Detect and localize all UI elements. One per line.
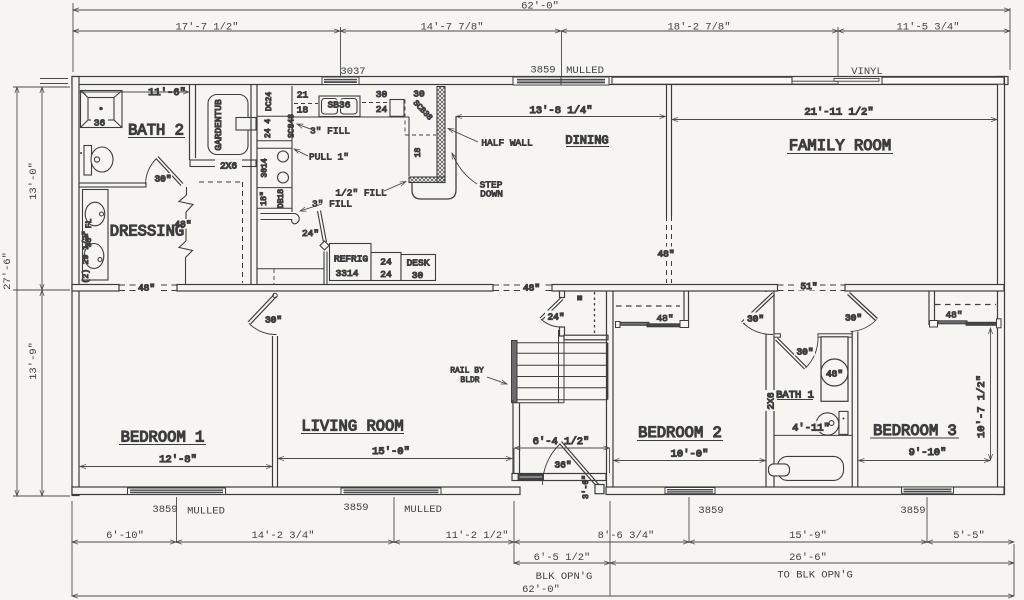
- opening 48" dashed hall-stairs: [493, 285, 552, 291]
- room label BATH 1: [776, 390, 814, 402]
- svg-text:BEDROOM 3: BEDROOM 3: [873, 422, 957, 440]
- toilet bath 2: [80, 146, 113, 176]
- door 36" front entry: [542, 442, 604, 500]
- svg-text:48": 48": [826, 369, 843, 380]
- wall: corridor segment B: [177, 285, 493, 292]
- door 30" bedroom 3: [843, 293, 878, 332]
- svg-text:5'-5": 5'-5": [953, 530, 985, 542]
- garden tub: [208, 95, 256, 155]
- wall bedroom2 left: [607, 292, 614, 488]
- cooktop 3014 circles: [261, 151, 289, 183]
- svg-text:24: 24: [380, 257, 392, 268]
- dimension 11'-5 3/4" top: [838, 22, 1010, 34]
- wall: bottom exterior left of entry: [72, 487, 520, 495]
- toilet bath1: [816, 411, 848, 435]
- svg-text:24": 24": [547, 312, 564, 323]
- sink base SB36 with double sink: [319, 96, 360, 117]
- leader 1/2" fill: [335, 182, 406, 199]
- svg-text:24: 24: [376, 104, 388, 115]
- leader 3" fill upper: [297, 124, 350, 137]
- svg-text:BLK OPN'G: BLK OPN'G: [536, 571, 593, 583]
- svg-text:3859: 3859: [900, 505, 925, 517]
- window 3859 bedroom2: [665, 488, 715, 494]
- bedroom3 closet left wall: [929, 292, 935, 326]
- svg-text:SB36: SB36: [328, 100, 351, 111]
- svg-text:DOWN: DOWN: [480, 189, 503, 200]
- upper cab dashed 30/24: [362, 89, 400, 115]
- svg-text:4'-11": 4'-11": [792, 423, 830, 435]
- dimension 4'-11" bath1: [792, 421, 830, 435]
- svg-text:9'-10": 9'-10": [909, 447, 947, 459]
- room label BEDROOM 3: [870, 422, 959, 440]
- bedroom3 closet shelf dashed: [935, 304, 996, 306]
- svg-text:12'-8": 12'-8": [159, 454, 197, 466]
- door 30" bedroom 2: [742, 293, 775, 335]
- wall bath1 / bedroom3: [852, 332, 858, 488]
- svg-text:3'-0": 3'-0": [582, 475, 591, 499]
- door 30" bedroom 1: [248, 293, 286, 334]
- dimension 6'-10" bottom: [72, 530, 176, 542]
- leader half wall: [448, 129, 533, 149]
- desk DESK 30: [401, 255, 436, 282]
- svg-text:(2) 29 1/2": (2) 29 1/2": [82, 231, 91, 284]
- dimension 26'-6" TO BLK OPN'G: [610, 552, 1014, 582]
- dimension 10'-7 1/2" bedroom3 vertical: [976, 328, 991, 460]
- svg-text:10'-0": 10'-0": [671, 449, 709, 461]
- dimension 62'-0" bottom overall: [72, 584, 1014, 596]
- svg-text:BEDROOM 1: BEDROOM 1: [121, 429, 205, 447]
- svg-text:18'-2 7/8": 18'-2 7/8": [667, 22, 730, 34]
- bath1 floor line: [774, 434, 852, 436]
- wall bath2 right / tub alcove: [190, 85, 196, 160]
- wall: top exterior: [72, 77, 1008, 85]
- counter edge right run: [408, 117, 410, 176]
- leader rail by bldr: [450, 367, 507, 386]
- svg-text:11'-2 1/2": 11'-2 1/2": [445, 530, 508, 542]
- cabinet 24/24: [371, 253, 401, 281]
- window 3859 bedroom3: [902, 487, 954, 493]
- svg-text:51": 51": [800, 281, 817, 292]
- svg-text:BATH 2: BATH 2: [128, 122, 184, 140]
- dimension 10'-0" bedroom2: [614, 449, 766, 461]
- refrigerator REFRIG 3314: [330, 244, 372, 281]
- door 30" bath 1: [776, 338, 819, 370]
- sliding door vinyl panel 2: [834, 78, 879, 81]
- wall: left exterior: [72, 77, 79, 496]
- svg-text:3859: 3859: [343, 502, 368, 514]
- shower 36" bath 2: [81, 91, 123, 129]
- leader pull 1": [294, 149, 349, 163]
- counter front edge top run: [292, 116, 409, 118]
- svg-text:48": 48": [945, 310, 962, 321]
- vanity dressing double sinks: [82, 190, 108, 284]
- svg-text:15'-9": 15'-9": [789, 530, 827, 542]
- dimension 15'-9" bottom: [689, 530, 927, 542]
- svg-text:SCB38: SCB38: [411, 99, 434, 123]
- svg-text:30: 30: [412, 270, 424, 281]
- svg-text:RAIL BY: RAIL BY: [450, 367, 484, 376]
- window 3859 mulled living room: [341, 488, 441, 495]
- svg-text:2X6: 2X6: [766, 392, 777, 409]
- room label BATH 2: [128, 122, 185, 140]
- bedroom2 closet shelf dashed: [616, 305, 680, 307]
- svg-text:30: 30: [413, 89, 425, 100]
- leader 3" fill lower: [300, 199, 352, 212]
- wall: corridor segment D: [845, 285, 1004, 292]
- wall bath2 / dressing: [79, 183, 146, 187]
- svg-text:MULLED: MULLED: [566, 65, 604, 77]
- svg-text:10'-7 1/2": 10'-7 1/2": [976, 375, 988, 438]
- svg-text:LIVING ROOM: LIVING ROOM: [301, 418, 403, 436]
- corner cabinet: [390, 89, 436, 136]
- kitchen cabinets left run front edge: [291, 86, 293, 212]
- svg-text:REFRIG: REFRIG: [334, 254, 369, 265]
- svg-text:BEDROOM 2: BEDROOM 2: [638, 424, 722, 442]
- svg-text:30": 30": [796, 347, 813, 358]
- svg-text:17'-7 1/2": 17'-7 1/2": [175, 22, 238, 34]
- label 2X6 bath1 wall: [765, 390, 777, 411]
- dimension 18'-2 7/8" top: [561, 22, 838, 34]
- svg-text:1/2" FILL: 1/2" FILL: [335, 188, 387, 199]
- entry sidelight window: [518, 474, 544, 480]
- dimension 11'-6" bath2: [80, 91, 189, 93]
- label 48" opening left: [136, 283, 157, 294]
- svg-text:30": 30": [265, 315, 282, 326]
- svg-text:8'-6 3/4": 8'-6 3/4": [598, 530, 655, 542]
- wall bedroom2 / bath1: [766, 292, 774, 488]
- wall 2X6 tub alcove bottom: [190, 160, 256, 172]
- wall dining / family room: [655, 85, 677, 283]
- dimension 9'-10" bedroom3: [859, 447, 991, 461]
- svg-text:HALF WALL: HALF WALL: [481, 138, 533, 149]
- svg-text:6'-4 1/2": 6'-4 1/2": [533, 436, 590, 448]
- upper cab dashed 21/18: [294, 90, 318, 116]
- svg-text:3314: 3314: [336, 268, 359, 279]
- dimension 6'-4 1/2" entry: [514, 436, 610, 473]
- svg-text:18": 18": [260, 191, 269, 205]
- svg-text:30": 30": [747, 314, 764, 325]
- svg-text:30": 30": [845, 313, 862, 324]
- window family room left: [612, 77, 792, 84]
- svg-text:DESK: DESK: [407, 258, 430, 269]
- svg-text:14'-2 3/4": 14'-2 3/4": [251, 530, 314, 542]
- svg-text:6'-10": 6'-10": [106, 530, 144, 542]
- svg-text:3" FILL: 3" FILL: [310, 126, 350, 137]
- counter peninsula hook: [261, 214, 300, 224]
- window 3859 mulled bedroom1: [128, 488, 226, 495]
- svg-text:11'-5 3/4": 11'-5 3/4": [896, 22, 959, 34]
- stair rail post: [512, 341, 518, 403]
- svg-text:21'-11 1/2": 21'-11 1/2": [804, 107, 873, 119]
- wall: corridor segment A: [72, 285, 119, 292]
- svg-text:3" FILL: 3" FILL: [312, 199, 352, 210]
- svg-text:DRESSING: DRESSING: [110, 223, 184, 241]
- dimension 12'-8" bedroom1: [80, 454, 272, 467]
- svg-text:GARDENTUB: GARDENTUB: [213, 99, 224, 151]
- svg-text:TO BLK OPN'G: TO BLK OPN'G: [777, 570, 853, 582]
- svg-text:21: 21: [297, 90, 309, 101]
- opening 48" dressing post: [174, 212, 192, 241]
- dimension 5'-5" bottom: [927, 530, 1014, 542]
- svg-text:36: 36: [94, 118, 106, 129]
- window 3037 kitchen: [322, 77, 359, 85]
- svg-text:24": 24": [302, 228, 319, 239]
- dimension 62'-0" top overall: [73, 1, 1010, 13]
- svg-text:24: 24: [380, 269, 392, 280]
- svg-text:26'-6": 26'-6": [789, 552, 827, 564]
- dimension 15'-0" living room: [278, 446, 512, 459]
- svg-text:13'-8 1/4": 13'-8 1/4": [529, 105, 592, 117]
- dimension 11'-2 1/2" bottom: [394, 530, 514, 542]
- dimension 17'-7 1/2" top: [73, 22, 340, 34]
- room label FAMILY ROOM: [787, 137, 893, 155]
- dimension 21'-11 1/2" family room: [672, 107, 997, 120]
- door 24" stair hall: [540, 291, 567, 336]
- opening 51" dashed bedrooms vestibule: [778, 285, 846, 291]
- tub bath1: [769, 456, 844, 480]
- svg-text:30": 30": [154, 174, 171, 185]
- dotted line stair hall: [594, 292, 596, 335]
- dimension 27'-6" left overall: [2, 87, 17, 496]
- wall living room / entry: [513, 400, 520, 474]
- bedroom3 closet sliding doors: [930, 309, 1002, 328]
- svg-text:48": 48": [657, 249, 674, 260]
- svg-text:48": 48": [656, 313, 673, 324]
- svg-text:30: 30: [376, 89, 388, 100]
- svg-text:DB18: DB18: [277, 189, 286, 208]
- wall stair hall top: [564, 335, 608, 340]
- svg-text:18: 18: [297, 105, 309, 116]
- sliding door vinyl panel 1: [792, 81, 838, 84]
- room label BEDROOM 1: [119, 429, 206, 447]
- filler angled piece refrigerator: [302, 211, 329, 286]
- window family room right: [882, 77, 1004, 84]
- dimension 6'-5 1/2" BLK OPN'G: [514, 552, 610, 583]
- extension lines bottom: [72, 497, 1014, 596]
- svg-text:2X6: 2X6: [220, 161, 237, 172]
- svg-text:DC24: DC24: [265, 92, 274, 111]
- svg-text:13'-9": 13'-9": [28, 342, 40, 380]
- window 3859 mulled dining: [513, 77, 609, 85]
- svg-text:48": 48": [138, 283, 155, 294]
- dashed cased opening dressing-kitchen: [199, 182, 243, 283]
- bedroom2 closet sliding doors: [616, 312, 689, 328]
- dimension 13'-0" left: [28, 87, 42, 290]
- wall break opening dressing (zigzag top): [179, 187, 193, 212]
- svg-text:62'-0": 62'-0": [521, 1, 559, 13]
- svg-text:14'-7 7/8": 14'-7 7/8": [420, 22, 483, 34]
- svg-text:36": 36": [554, 460, 571, 471]
- svg-text:6'-5 1/2": 6'-5 1/2": [534, 552, 591, 564]
- svg-text:PULL 1": PULL 1": [309, 152, 349, 163]
- bath1 top wall: [774, 334, 852, 337]
- hall edge line kitchen: [257, 268, 324, 270]
- svg-text:BLDR: BLDR: [460, 376, 479, 385]
- room label DINING: [565, 134, 609, 148]
- vanity 48" bath1: [821, 337, 848, 402]
- svg-text:3859: 3859: [698, 505, 723, 517]
- stairs treads: [512, 330, 608, 403]
- leader step down: [452, 153, 503, 200]
- svg-text:MULLED: MULLED: [187, 506, 225, 518]
- room label BEDROOM 2: [637, 424, 723, 442]
- svg-text:24 4: 24 4: [264, 119, 273, 138]
- extension lines top: [73, 3, 1010, 78]
- svg-text:DINING: DINING: [565, 134, 608, 148]
- svg-text:62'-0": 62'-0": [522, 584, 560, 596]
- bedroom2 closet right wall: [684, 292, 689, 329]
- dimension 14'-2 3/4" bottom: [176, 530, 394, 542]
- svg-text:3014: 3014: [261, 158, 270, 177]
- half wall hatched: [409, 87, 445, 183]
- door 30" bath 2: [146, 157, 184, 186]
- extension ticks left: [13, 79, 70, 497]
- label 51" opening: [798, 281, 820, 292]
- svg-text:MULLED: MULLED: [404, 504, 442, 516]
- dimension 13'-9" left: [28, 290, 42, 496]
- wall: entry recessed front: [512, 474, 606, 481]
- label 48" opening center: [521, 283, 542, 294]
- wall: corridor segment C: [552, 285, 778, 292]
- cabinet divisions left run: [257, 116, 292, 208]
- wall break opening dressing (zigzag bottom): [179, 241, 193, 285]
- opening 48" dashed dressing-bedroom1: [119, 285, 177, 291]
- svg-text:48": 48": [523, 283, 540, 294]
- svg-text:18: 18: [414, 148, 423, 158]
- svg-text:FAMILY ROOM: FAMILY ROOM: [789, 137, 891, 155]
- dimension 8'-6 3/4" bottom: [514, 530, 689, 542]
- dimension 13'-8 1/4" dining: [456, 105, 666, 117]
- svg-text:13'-0": 13'-0": [28, 162, 40, 200]
- wall dressing / kitchen: [251, 85, 257, 285]
- wall: bottom exterior right of entry: [606, 487, 1004, 495]
- svg-text:3859: 3859: [152, 504, 177, 516]
- dimension 14'-7 7/8" top: [340, 22, 561, 34]
- svg-text:15'-0": 15'-0": [372, 446, 410, 458]
- svg-text:11'-6": 11'-6": [148, 87, 186, 99]
- dashed line hall kitchen: [273, 269, 275, 285]
- svg-text:3859: 3859: [530, 65, 555, 77]
- wall: right exterior: [998, 77, 1005, 495]
- svg-text:27'-6": 27'-6": [2, 252, 14, 290]
- post square corridor: [577, 295, 582, 300]
- room label LIVING ROOM: [301, 418, 404, 436]
- step down edge: [412, 117, 456, 200]
- wall bedroom1 / living room: [273, 336, 278, 487]
